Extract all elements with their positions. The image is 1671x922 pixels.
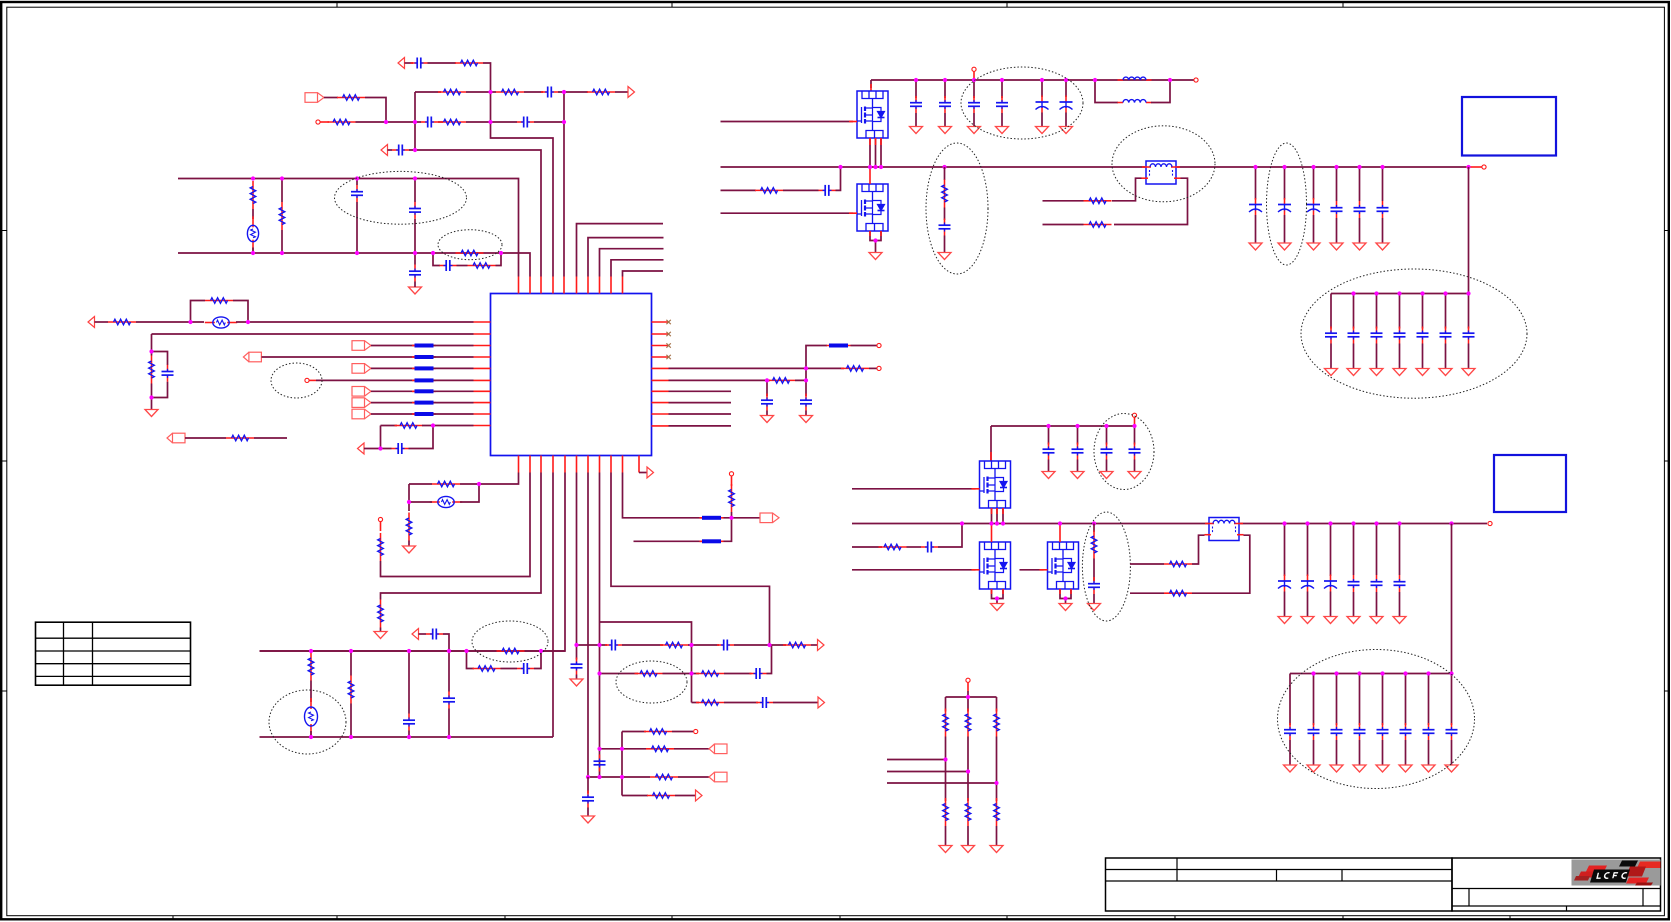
junctions <box>407 482 481 504</box>
capacitor C4 <box>517 117 534 128</box>
junctions rail <box>838 165 946 243</box>
junctions <box>188 320 250 324</box>
wire <box>806 346 827 369</box>
tolerance ellipse E1 <box>335 171 467 224</box>
resistor R32 <box>696 700 724 706</box>
cap col <box>1353 294 1355 329</box>
pin P13 <box>966 678 970 682</box>
transistor Q4 <box>980 542 1011 589</box>
resistor R24 <box>308 653 314 681</box>
cap col <box>1376 524 1378 576</box>
resistor Rd996.5t <box>994 709 1000 737</box>
wire <box>1043 200 1084 202</box>
pin P9 <box>972 67 976 71</box>
Q1 src pins <box>875 138 877 167</box>
wire <box>371 367 415 369</box>
capacitor C20 <box>750 668 767 679</box>
ground <box>1324 617 1337 624</box>
bus737 <box>260 736 554 738</box>
snubber <box>721 189 757 191</box>
wire <box>422 425 474 427</box>
resistor R43 <box>1164 561 1192 567</box>
wire <box>448 709 450 738</box>
wire <box>1192 535 1205 564</box>
capacitor Ck1422.5 <box>1417 327 1429 344</box>
wire <box>767 645 772 674</box>
wire <box>409 426 434 449</box>
bus entry row391 <box>412 389 436 393</box>
inductor L2 <box>1118 77 1152 80</box>
capacitor C7 <box>409 202 421 219</box>
cap col <box>1330 524 1332 577</box>
ferrite FB2 <box>430 496 462 507</box>
capacitor Cb1359.5 <box>1354 201 1366 218</box>
wire <box>1077 460 1079 472</box>
tolerance ellipse E10 <box>1267 143 1307 265</box>
RC branch <box>433 253 440 266</box>
cap col <box>1255 167 1257 200</box>
Q2 gate <box>721 212 854 214</box>
resistor R12 <box>108 319 136 325</box>
cap col <box>1399 524 1401 576</box>
capacitor Ck1445.5 <box>1440 327 1452 344</box>
cap col <box>1399 294 1401 329</box>
cap col <box>1048 426 1050 445</box>
wire <box>1284 592 1286 617</box>
snubber2 <box>852 546 882 548</box>
net arrow A9 <box>818 640 825 651</box>
capacitor C8 <box>409 265 421 282</box>
resistor R4 <box>587 89 615 95</box>
row541 <box>634 540 703 542</box>
wire <box>1048 460 1050 472</box>
ground <box>800 416 813 423</box>
IC left pins <box>474 322 491 426</box>
wire vert x415 <box>414 92 416 150</box>
ind loop <box>1095 80 1118 103</box>
wire <box>1336 740 1338 765</box>
row334 <box>152 333 474 335</box>
ground <box>1307 243 1320 250</box>
divider col <box>967 697 969 712</box>
col588 capgnd <box>587 777 589 794</box>
capacitor Cw1399.5 <box>1394 575 1406 592</box>
inductor L1 <box>1118 100 1152 103</box>
Q5 gate <box>1020 569 1044 571</box>
wire <box>945 737 947 802</box>
tolerance ellipse E9 <box>1112 126 1215 202</box>
cap col <box>1284 524 1286 577</box>
bus entry <box>827 344 851 348</box>
resistor R44 <box>1164 590 1192 596</box>
stub pin 611 <box>611 260 664 277</box>
wire <box>967 737 969 802</box>
junctions <box>729 516 733 520</box>
Q5 drain <box>1059 524 1061 543</box>
Q1 src pins <box>880 138 882 167</box>
net arrow A3 <box>381 145 388 156</box>
loop <box>191 301 206 323</box>
net arrow A6 <box>358 443 365 454</box>
wire <box>408 731 410 738</box>
row368 to pin <box>669 367 845 369</box>
stub pin 588 <box>588 238 664 277</box>
cap col <box>1065 80 1067 97</box>
cap col <box>1422 294 1424 329</box>
net arrow A4 <box>88 317 95 328</box>
cap branch <box>805 380 807 396</box>
resistor R22 <box>378 600 384 628</box>
pin lead <box>869 138 871 145</box>
wire <box>371 402 415 404</box>
wire <box>262 356 415 358</box>
wire <box>1428 740 1430 765</box>
pin lead <box>973 72 975 80</box>
cap col <box>1077 426 1079 445</box>
pin lead <box>870 84 872 91</box>
col599 <box>599 473 601 778</box>
ground <box>1330 243 1343 250</box>
loop 466 <box>467 651 475 669</box>
wire <box>443 634 449 692</box>
wire <box>724 518 732 542</box>
capacitor C24 <box>819 185 836 196</box>
ground <box>1100 472 1113 479</box>
ground <box>1036 127 1049 134</box>
rail2 y523 <box>852 523 1209 525</box>
Q2 src <box>870 231 881 241</box>
pin lead <box>875 138 877 145</box>
wire <box>434 367 474 369</box>
wire <box>254 437 287 439</box>
capacitor Ck1353.5 <box>1348 327 1360 344</box>
resistor R33 <box>644 729 672 735</box>
row795 <box>622 795 648 797</box>
wire <box>1106 460 1108 472</box>
col639 arrow <box>639 472 647 474</box>
ground <box>996 127 1009 134</box>
no-connect x <box>666 355 670 359</box>
resistor R27 <box>497 648 525 654</box>
capacitor C21 <box>756 697 773 708</box>
wire <box>252 209 254 219</box>
wire <box>151 384 153 410</box>
junctions bank1 <box>1351 291 1470 295</box>
net tag T1 <box>305 93 324 103</box>
ground <box>1347 369 1360 376</box>
pin lead <box>1134 418 1136 426</box>
capacitor C1 <box>411 58 428 69</box>
ground <box>1393 369 1406 376</box>
cap col <box>1359 674 1361 726</box>
wire <box>405 62 414 64</box>
RC to gnd <box>152 352 168 366</box>
title block <box>1106 858 1661 911</box>
resistor R37 <box>755 188 783 194</box>
ground <box>1370 617 1383 624</box>
wire <box>805 411 807 416</box>
capacitor C14b <box>443 692 455 709</box>
cap col <box>1330 294 1332 329</box>
junctions <box>765 366 808 382</box>
capacitor Cq1307.5 <box>1301 575 1314 592</box>
Q3 src pins <box>996 508 998 524</box>
capacitor Cb1002 <box>996 96 1008 113</box>
stub <box>669 413 732 415</box>
capacitor Cz1290 <box>1284 723 1296 740</box>
resistor R31 <box>696 671 724 677</box>
capacitor Cv1048.5 <box>1043 443 1055 460</box>
wire <box>371 345 415 347</box>
bus y426 <box>991 425 1135 427</box>
pin P2 <box>305 378 309 382</box>
capacitor Cw1376.5 <box>1371 575 1383 592</box>
cap col <box>1106 426 1108 445</box>
divider col <box>945 697 947 712</box>
ground <box>1439 369 1452 376</box>
wire <box>724 702 758 704</box>
capacitor Ck1376.5 <box>1371 327 1383 344</box>
ground <box>1422 765 1435 772</box>
resistor R14 <box>149 356 155 384</box>
wire <box>95 321 109 323</box>
IC bottom pins <box>519 456 640 473</box>
LCFC logo <box>1572 860 1661 886</box>
resistor R26 <box>473 666 501 672</box>
phase rail y167b <box>1177 166 1466 168</box>
capacitor Cz1313.5 <box>1308 723 1320 740</box>
wire <box>869 367 877 369</box>
row380 <box>669 379 771 381</box>
junctions <box>586 747 624 779</box>
sec right <box>1114 178 1188 224</box>
ground <box>990 846 1003 853</box>
wire <box>236 321 474 323</box>
resistor R30 <box>635 671 663 677</box>
wire <box>252 248 254 254</box>
wire <box>371 390 415 392</box>
capacitor C3 <box>421 117 438 128</box>
wire <box>1289 740 1291 765</box>
wire <box>576 675 578 680</box>
wire <box>1422 344 1424 369</box>
cap col <box>1289 674 1291 726</box>
ferrite FB1 <box>205 317 237 328</box>
wire <box>438 121 443 123</box>
wire <box>434 390 474 392</box>
wire <box>724 517 761 519</box>
resistor R19 <box>432 481 460 487</box>
capacitor C17 <box>571 658 583 675</box>
row731 <box>622 731 646 733</box>
pin lead <box>1040 569 1048 571</box>
ground <box>1353 243 1366 250</box>
wire <box>388 149 393 151</box>
Q1 src pins <box>869 138 871 167</box>
bus entry <box>700 516 724 520</box>
wire <box>1359 740 1361 765</box>
Q2 drain <box>869 167 871 184</box>
net arrow A7 <box>647 467 654 478</box>
wire <box>795 368 806 380</box>
capacitor C25 <box>939 219 951 236</box>
wire <box>356 202 358 253</box>
tolerance ellipse E8 <box>926 143 988 274</box>
bus12V y80 <box>871 79 1194 81</box>
ground <box>582 816 595 823</box>
sense row1 <box>1130 563 1164 565</box>
wire <box>1382 218 1384 243</box>
col576 capgnd <box>576 645 578 660</box>
Q3 gate <box>852 488 976 490</box>
junctions bus178/253 <box>251 176 503 255</box>
resistor R39 <box>1084 198 1112 204</box>
Q4 drain <box>991 524 993 543</box>
resistor R28 <box>660 642 688 648</box>
bus entry row345 <box>412 344 436 348</box>
row645 <box>577 644 608 646</box>
wire <box>233 301 248 323</box>
resistor R16 <box>226 435 254 441</box>
ground <box>1376 765 1389 772</box>
resistor R29 <box>783 642 811 648</box>
bank2 bus <box>1290 673 1452 675</box>
resistor R1 <box>455 60 483 66</box>
pin lead <box>880 231 882 236</box>
pin P11 <box>1132 413 1136 417</box>
wire <box>136 321 204 323</box>
resistor Rd968b <box>965 798 971 826</box>
wire <box>907 546 922 548</box>
net tag row402 <box>352 398 371 408</box>
wire <box>674 748 709 750</box>
wire <box>1093 559 1095 582</box>
capacitor Cz1428.5 <box>1423 723 1435 740</box>
thermistor RT2 <box>305 698 318 735</box>
wire <box>944 113 946 127</box>
wire <box>356 121 422 123</box>
wire <box>152 382 168 398</box>
ground <box>939 846 952 853</box>
net tag <box>709 744 727 754</box>
junctions rail caps <box>1253 165 1470 169</box>
resistor Rd945.5t <box>943 709 949 737</box>
wire <box>1043 224 1084 226</box>
stub pin 576 <box>577 224 664 277</box>
IC right pins <box>652 322 669 426</box>
wire <box>1376 592 1378 617</box>
ground <box>991 604 1004 611</box>
cap col <box>1336 674 1338 726</box>
Q1 top <box>870 80 872 88</box>
wire <box>419 633 427 635</box>
col553 <box>552 473 554 738</box>
pin lead <box>1070 589 1072 594</box>
capacitor Cb945 <box>939 96 951 113</box>
wire <box>1192 535 1250 593</box>
ground <box>1042 472 1055 479</box>
row759 <box>887 759 946 761</box>
tolerance ellipse E6 <box>616 661 687 703</box>
capacitor Cv1134.5 <box>1129 443 1141 460</box>
resistor R36 <box>647 793 675 799</box>
resistor R15 <box>395 423 423 429</box>
net arrow A8 <box>412 629 419 640</box>
wire <box>1399 344 1401 369</box>
bus697 <box>946 696 997 698</box>
Q5 src <box>1060 589 1071 599</box>
wire <box>1376 344 1378 369</box>
resistor R11 <box>468 263 496 269</box>
resistor R7 <box>438 119 466 125</box>
wire <box>434 402 474 404</box>
capacitor C16 <box>517 663 534 674</box>
ground <box>1301 617 1314 624</box>
capacitor C13 <box>800 394 812 411</box>
resistor Rd945.5b <box>943 798 949 826</box>
note box N2 <box>1494 455 1566 512</box>
resistor R41 <box>879 544 907 550</box>
pin lead <box>880 138 882 145</box>
resistor R3 <box>496 89 524 95</box>
resistor Rd996.5b <box>994 798 1000 826</box>
resistor R18 <box>767 378 795 384</box>
wire <box>766 411 768 416</box>
wire <box>675 795 696 797</box>
resistor R9 <box>279 202 285 230</box>
pin P10 <box>1482 165 1486 169</box>
wire <box>381 425 398 427</box>
wire <box>408 541 410 547</box>
wire <box>1001 113 1003 127</box>
capacitor Cb974 <box>968 96 980 113</box>
wire <box>915 113 917 127</box>
wire <box>1307 592 1309 617</box>
ground <box>570 679 583 686</box>
capacitor C6 <box>351 185 363 202</box>
wire <box>1041 113 1043 127</box>
ground <box>1278 243 1291 250</box>
bus entry row402 <box>412 401 436 405</box>
pin P5 <box>378 517 382 521</box>
cap col <box>1041 80 1043 97</box>
capacitor Cp1042 <box>1036 96 1049 113</box>
junctions <box>149 349 153 399</box>
resistor R35 <box>650 774 678 780</box>
wire <box>836 167 841 190</box>
col599 branch <box>600 622 692 703</box>
tolerance ellipse E12 <box>1094 414 1154 490</box>
capacitor C26 <box>921 542 938 553</box>
capacitor Cz1336.5 <box>1331 723 1343 740</box>
wire <box>967 691 969 697</box>
wire <box>310 651 312 653</box>
cap col <box>1001 80 1003 98</box>
wire <box>851 345 877 347</box>
ground <box>962 846 975 853</box>
pin lead <box>320 121 329 123</box>
wire <box>364 448 392 450</box>
sense row2 <box>1130 592 1164 594</box>
pin lead <box>1059 589 1061 594</box>
ground <box>409 287 422 294</box>
wire <box>151 352 153 356</box>
capacitor C19 <box>717 640 734 651</box>
wire <box>409 483 432 485</box>
cap col <box>1382 674 1384 726</box>
capacitor Cv1077.5 <box>1072 443 1084 460</box>
transistor Q3 <box>980 461 1011 508</box>
